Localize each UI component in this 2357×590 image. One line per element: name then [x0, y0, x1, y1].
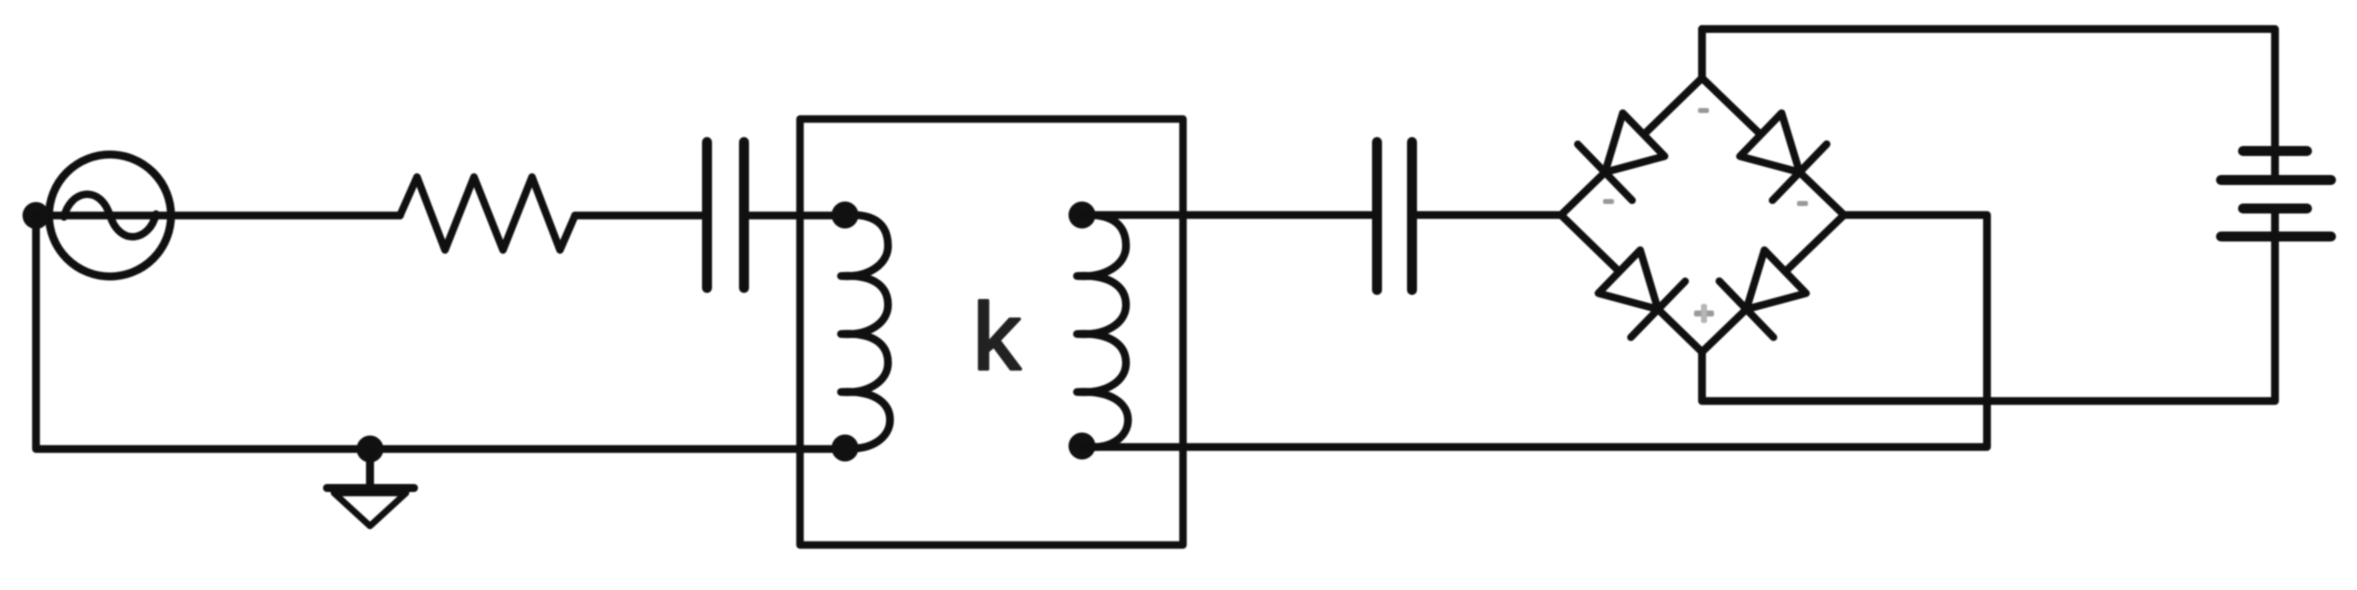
- resistor R1 zigzag: [400, 177, 575, 250]
- battery B1 plate 4 long: [2221, 232, 2331, 242]
- wire bridge top stub: [1698, 29, 1706, 78]
- polarity mark near top corner: [1698, 108, 1709, 113]
- wire resistor to C1: [575, 212, 702, 220]
- polarity mark near right corner: [1797, 201, 1808, 206]
- wire top DC rail: [1702, 29, 2275, 180]
- wire C1 to primary coil: [748, 212, 845, 220]
- diode D1 cathode bar: [1578, 144, 1632, 200]
- battery B1 plate 2 long: [2221, 175, 2331, 185]
- secondary inductor L2: [1077, 215, 1128, 447]
- polarity mark plus sign near bottom corner: [1694, 311, 1714, 317]
- capacitor C1 left plate: [702, 142, 712, 288]
- svg-text:k: k: [973, 284, 1021, 390]
- AC source V1 circle: [49, 155, 171, 277]
- L1 top terminal dot: [832, 202, 859, 229]
- L2 top terminal dot: [1069, 202, 1096, 229]
- capacitor C1 right plate: [739, 142, 749, 288]
- ground bar: [327, 484, 414, 492]
- diode D2 upper-right triangle: [1740, 113, 1800, 172]
- L1 bottom terminal dot: [832, 435, 859, 462]
- transformer box: [800, 119, 1183, 545]
- capacitor C2 left plate: [1372, 142, 1382, 290]
- wire left vertical drop: [36, 216, 845, 450]
- diode D3 cathode bar: [1631, 281, 1685, 337]
- junction dot at ground tap: [357, 436, 384, 463]
- diode D3 lower-left triangle: [1598, 250, 1658, 309]
- AC source sine wave: [64, 194, 156, 237]
- diode D2 cathode bar: [1773, 144, 1827, 200]
- primary inductor L1: [841, 215, 890, 449]
- diode D4 lower-right triangle: [1746, 250, 1806, 309]
- capacitor C2 right plate: [1407, 142, 1417, 290]
- node A junction dot at source left: [23, 202, 50, 229]
- wire top rail from source node to resistor: [36, 212, 400, 220]
- wire L2 top to C2: [1082, 211, 1373, 219]
- wire bridge right corner to right vertical: [1082, 215, 1987, 447]
- bridge diamond edges: [1561, 78, 1844, 352]
- ground stem: [366, 449, 374, 484]
- diode D1 upper-left triangle: [1605, 113, 1665, 172]
- diode D4 cathode bar: [1719, 281, 1773, 337]
- ground triangle: [334, 493, 406, 526]
- polarity mark near left corner: [1603, 199, 1614, 204]
- wire C2 to bridge left corner: [1416, 211, 1561, 219]
- wire battery bottom to DC bottom rail: [1702, 208, 2275, 401]
- battery B1 plate 3 short: [2243, 204, 2307, 214]
- L2 bottom terminal dot: [1069, 433, 1096, 460]
- battery B1 plate 1 short: [2243, 146, 2307, 156]
